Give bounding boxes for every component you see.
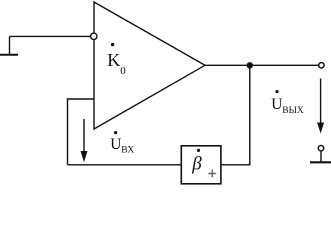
label K0: [107, 43, 126, 77]
node junction: [247, 62, 253, 68]
wire ground to input bubble: [10, 35, 91, 37]
svg-text:U: U: [271, 96, 282, 113]
input bubble: [91, 33, 97, 39]
label beta: [191, 149, 202, 175]
plus sign: [208, 170, 216, 178]
op-amp U1: [94, 2, 205, 129]
label Uvyx: [271, 90, 304, 116]
wire inverting input: [68, 99, 95, 165]
svg-text:β: β: [191, 153, 202, 174]
svg-text:ВХ: ВХ: [121, 146, 134, 156]
svg-text:0: 0: [120, 65, 126, 77]
arrow Uin: [81, 119, 88, 162]
svg-text:U: U: [110, 136, 121, 153]
arrow Uout: [317, 79, 324, 134]
label Uvx: [110, 131, 134, 156]
feedback block B1: [181, 146, 221, 184]
ground: [0, 36, 18, 54]
wire junction to beta block: [221, 65, 250, 165]
svg-text:K: K: [107, 50, 120, 70]
terminal top right: [319, 63, 324, 68]
wire feedback bottom: [68, 164, 182, 166]
terminal bottom right: [310, 146, 331, 163]
wire output: [205, 64, 319, 66]
svg-text:ВЫХ: ВЫХ: [282, 106, 304, 116]
